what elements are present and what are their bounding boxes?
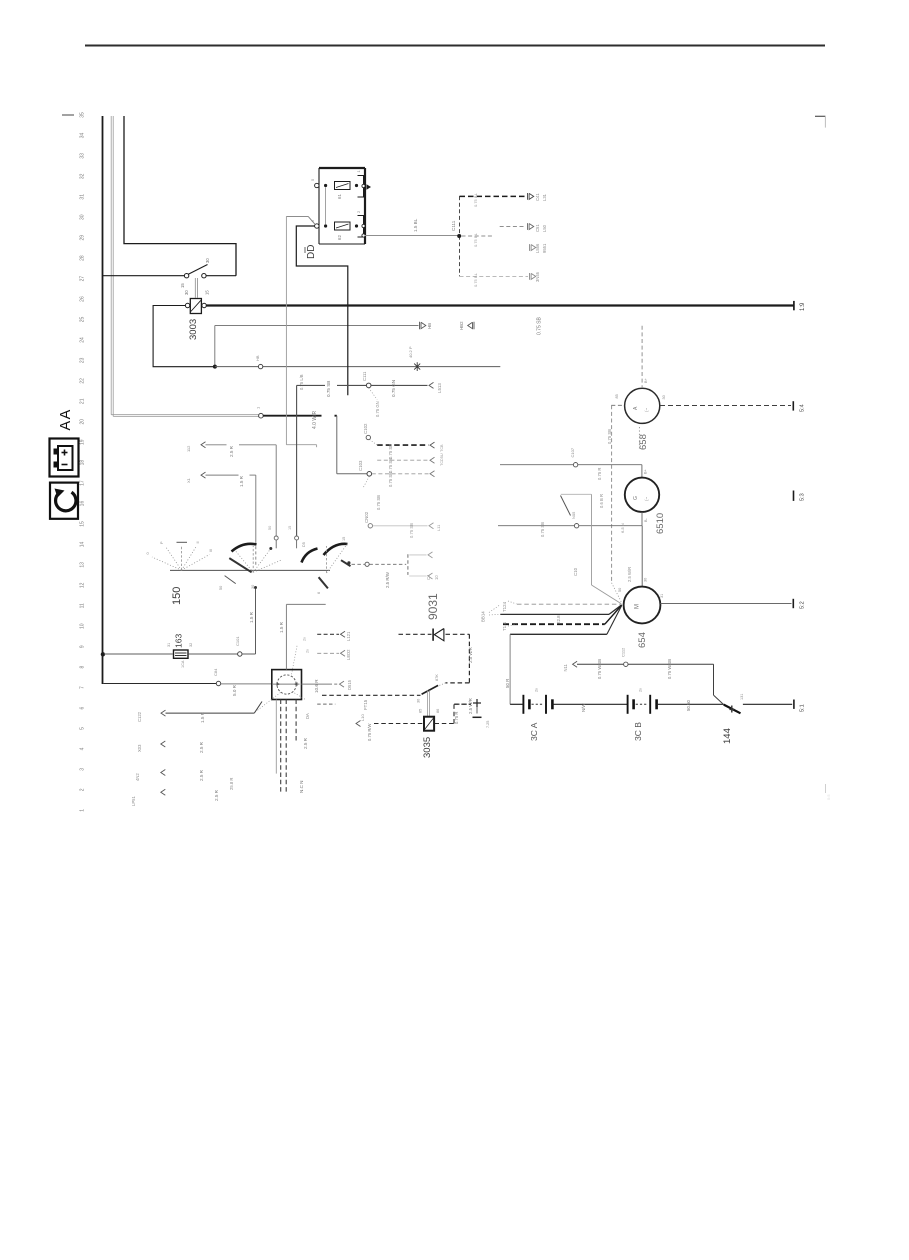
svg-text:1: 1 xyxy=(80,809,86,812)
component main switch 144 blade xyxy=(724,705,741,714)
node label 2x battB xyxy=(639,688,643,692)
node leader 3A downright xyxy=(292,692,310,720)
svg-text:0.75 SB: 0.75 SB xyxy=(376,495,381,510)
node label 2.5 R pigtail xyxy=(303,737,308,749)
component battery 3C A xyxy=(523,695,552,714)
node label 0.75 SB CN02 xyxy=(409,523,414,538)
wire switch to lineB xyxy=(206,275,236,277)
node label 2.5 W/R a xyxy=(468,647,473,663)
svg-text:0.75 R/W: 0.75 R/W xyxy=(367,723,372,741)
node label 30 654 xyxy=(644,578,648,582)
node labels 0.75 SB fan xyxy=(388,444,393,487)
svg-text:30: 30 xyxy=(184,290,189,295)
svg-text:0.75 BL: 0.75 BL xyxy=(473,192,478,207)
svg-text:31: 31 xyxy=(660,594,664,598)
svg-text:2x: 2x xyxy=(535,688,539,692)
node label 2.5 R/W ign xyxy=(385,571,390,588)
wire fuse62 loop xyxy=(296,226,348,395)
node 6510 inner symbol xyxy=(633,496,649,501)
svg-text:CN02: CN02 xyxy=(364,511,369,523)
wire ruler top dash xyxy=(62,114,74,116)
wire C122 wire xyxy=(161,702,262,717)
wire branch C41 bold dashed xyxy=(460,195,528,197)
wire switch feed y275 xyxy=(103,275,185,277)
component switch blade (relay 3003 control) xyxy=(188,265,207,275)
node circle on ign output xyxy=(365,562,369,566)
svg-text:8: 8 xyxy=(80,666,86,669)
svg-text:0.75 SB: 0.75 SB xyxy=(607,429,612,444)
node fuse62 dots xyxy=(324,224,358,227)
wire stub connector row475 xyxy=(186,472,206,483)
svg-text:L31: L31 xyxy=(542,193,547,201)
svg-text:C107: C107 xyxy=(570,447,575,457)
svg-text:0.75 R: 0.75 R xyxy=(597,468,602,480)
svg-text:2.5 W/R: 2.5 W/R xyxy=(627,567,632,582)
wire DD long gray vertical xyxy=(285,216,287,444)
svg-text:C103: C103 xyxy=(358,460,363,471)
node fuse61 terminal xyxy=(315,183,319,187)
wire 654 ground xyxy=(660,603,791,605)
svg-text:3: 3 xyxy=(80,768,86,771)
wire C111 row right xyxy=(371,384,427,386)
wire sense wire y664 xyxy=(573,661,624,667)
node connector half [> HB xyxy=(420,322,433,329)
svg-text:2.5 R: 2.5 R xyxy=(229,445,234,457)
node splice 40.2P xyxy=(408,346,420,371)
node label 144 xyxy=(722,728,733,744)
wire x611 long dashed xyxy=(611,405,613,583)
node battery positive tap xyxy=(473,699,491,728)
svg-text:TCD5U: TCD5U xyxy=(440,453,444,466)
node label BB14 xyxy=(481,605,501,622)
svg-text:30: 30 xyxy=(644,578,648,582)
svg-text:6-5 N: 6-5 N xyxy=(620,523,625,533)
wire branch bottom dashed xyxy=(460,275,529,277)
svg-text:0.75 SB: 0.75 SB xyxy=(388,472,393,487)
node label 10.6 R xyxy=(314,679,319,693)
wire DD long gray bottom stub xyxy=(286,445,316,448)
wire double conductor vertical xyxy=(111,116,113,416)
svg-text:24: 24 xyxy=(80,337,86,343)
svg-text:9031: 9031 xyxy=(426,593,440,620)
wire C101 to ignition xyxy=(242,589,256,654)
node junction C111 xyxy=(457,234,461,238)
wire 3035 coil left dashed xyxy=(374,723,423,725)
node circle C103 xyxy=(358,460,372,476)
node label C410 xyxy=(426,574,439,580)
svg-text:2.5 R: 2.5 R xyxy=(214,789,219,801)
svg-text:28: 28 xyxy=(80,255,86,261)
node circle CN02 xyxy=(364,511,372,528)
node label 6510 xyxy=(655,513,666,534)
svg-text:26: 26 xyxy=(80,296,86,302)
svg-text:C51: C51 xyxy=(535,224,540,232)
svg-text:(~: (~ xyxy=(644,407,649,412)
svg-text:85: 85 xyxy=(615,394,619,398)
node fuse 3003 pin labels xyxy=(184,290,210,295)
node connector L556 xyxy=(530,243,548,253)
node label AA xyxy=(58,408,74,430)
svg-text:163: 163 xyxy=(174,634,184,648)
svg-text:21: 21 xyxy=(80,398,86,404)
svg-text:9: 9 xyxy=(80,645,86,648)
node labels fan pins xyxy=(440,444,444,466)
svg-text:30: 30 xyxy=(417,699,421,703)
wire distribution line y366 xyxy=(215,366,500,368)
wire DD feed horizontal xyxy=(286,215,308,217)
svg-text:1.5 R: 1.5 R xyxy=(249,611,254,623)
wire ignition common line xyxy=(170,569,330,571)
node label 5.0 R xyxy=(232,684,237,696)
svg-text:C112: C112 xyxy=(621,647,626,657)
wire 654 fan dashed y604 xyxy=(517,603,621,605)
svg-text:3003: 3003 xyxy=(188,319,199,340)
svg-text:D5: D5 xyxy=(302,542,306,547)
svg-text:654: 654 xyxy=(637,632,648,648)
svg-text:4.0 W/R: 4.0 W/R xyxy=(312,411,318,429)
svg-text:0.75 SB: 0.75 SB xyxy=(388,444,393,459)
svg-text:DA: DA xyxy=(305,713,310,719)
node tick labels x276 xyxy=(268,526,272,530)
component fuse 61 xyxy=(335,182,351,200)
wire stub connector row444 xyxy=(186,442,206,452)
svg-text:0.75 SB: 0.75 SB xyxy=(540,522,545,537)
node connector half HB <] xyxy=(459,321,474,330)
svg-text:1.5 R: 1.5 R xyxy=(200,711,205,723)
node 658 pin labels xyxy=(615,377,666,399)
node battery icon symbol xyxy=(54,446,73,470)
wire vertical x276 to Y xyxy=(275,445,277,536)
svg-text:C111: C111 xyxy=(362,371,367,381)
node circle C102 xyxy=(363,423,370,440)
node label 0.75 L/B xyxy=(299,374,304,390)
node circle on y525 xyxy=(571,511,579,528)
svg-text:6: 6 xyxy=(317,592,321,594)
svg-text:50 R: 50 R xyxy=(505,679,510,688)
component blade y525 xyxy=(561,496,571,516)
node switch contact 30 xyxy=(202,274,206,278)
wire switch out to ground xyxy=(743,703,792,705)
svg-text:III: III xyxy=(209,549,213,552)
wire x591 diagonal xyxy=(592,585,622,604)
node label 50 R xyxy=(505,679,510,688)
node ground 5:1 xyxy=(794,700,806,713)
node label 150 xyxy=(171,587,183,605)
svg-text:HB: HB xyxy=(427,323,432,329)
node label 0.75 R coil right xyxy=(454,712,459,724)
wire sense wire right xyxy=(628,664,724,704)
svg-text:T1.4: T1.4 xyxy=(502,622,507,631)
svg-text:DD: DD xyxy=(306,245,317,259)
node C111 wire labels xyxy=(473,192,478,287)
svg-text:6: 6 xyxy=(80,706,86,709)
svg-text:5:3: 5:3 xyxy=(800,493,806,501)
svg-text:31: 31 xyxy=(167,643,171,647)
node switch pin label RUN xyxy=(180,258,210,288)
node Y connector x276 xyxy=(274,536,278,548)
svg-text:2: 2 xyxy=(80,788,86,791)
wire ignition branch tee xyxy=(407,554,409,575)
svg-text:15: 15 xyxy=(205,290,210,295)
node label 163 xyxy=(167,634,193,668)
component relay 3035 blade xyxy=(422,685,439,694)
svg-text:61: 61 xyxy=(337,194,342,199)
node label 3C B xyxy=(633,722,643,741)
wire accessory line y325 xyxy=(215,325,419,327)
wire vertical x255 upper xyxy=(255,475,257,541)
wire 658 ground dashed xyxy=(660,405,791,407)
svg-text:II: II xyxy=(196,541,200,543)
svg-text:13: 13 xyxy=(80,562,86,568)
svg-text:0.75 SB: 0.75 SB xyxy=(537,317,543,335)
wire row CN02 xyxy=(373,525,428,527)
node labels 2.5R stubs xyxy=(199,741,234,801)
wire DD feed diagonal xyxy=(308,216,315,224)
svg-text:1.5 R: 1.5 R xyxy=(279,621,284,633)
svg-text:L513: L513 xyxy=(437,383,442,393)
node fuse 3003 terminal left xyxy=(185,303,189,307)
svg-text:0.75 W/SB: 0.75 W/SB xyxy=(667,659,672,679)
node leader C111b xyxy=(369,388,380,417)
node label 4.0 W/R xyxy=(312,411,318,429)
node leader 3A downleft xyxy=(257,693,281,712)
svg-text:B+: B+ xyxy=(644,377,648,383)
component ignition fan A (key positions) xyxy=(146,541,213,570)
node label T1.4 xyxy=(502,622,517,631)
node corner registration mark xyxy=(815,116,825,127)
svg-text:29: 29 xyxy=(80,235,86,241)
node leader to 3035 blade xyxy=(439,683,446,686)
svg-text:32: 32 xyxy=(80,173,86,179)
svg-text:7.25: 7.25 xyxy=(486,721,490,728)
wire dashed row 474 xyxy=(372,473,429,475)
svg-text:C111: C111 xyxy=(451,220,456,231)
wire fuse163 feed xyxy=(104,653,173,655)
component connector bracket b1 xyxy=(358,176,372,198)
svg-text:(~: (~ xyxy=(644,496,649,501)
wire branch mid dashed xyxy=(462,227,527,237)
svg-text:87K: 87K xyxy=(435,674,439,681)
wire 6510 bottom run xyxy=(498,525,642,527)
svg-text:2x: 2x xyxy=(303,637,307,641)
node connector LP51 xyxy=(131,789,165,806)
node label 0.75 SB bus xyxy=(537,317,543,335)
svg-text:144: 144 xyxy=(722,728,733,744)
node label 22.8 xyxy=(556,615,561,624)
component fuse 3003 xyxy=(190,299,201,314)
node label 3035 xyxy=(422,737,433,758)
svg-text:15: 15 xyxy=(288,526,292,530)
node label 0.75 SB x611 xyxy=(607,429,612,444)
component ignition fan C (accessory contacts) xyxy=(302,537,351,594)
svg-text:30: 30 xyxy=(205,258,210,263)
node circle C101 xyxy=(235,636,242,657)
svg-text:C102: C102 xyxy=(363,423,368,434)
svg-text:1.5 R: 1.5 R xyxy=(239,475,244,487)
wire feed line B L-run xyxy=(124,116,236,276)
node connector tee down xyxy=(428,573,433,579)
svg-text:L10: L10 xyxy=(360,714,365,721)
node label N/W xyxy=(581,703,586,712)
svg-text:0.75 GN: 0.75 GN xyxy=(375,401,380,417)
node label DD xyxy=(305,245,317,259)
svg-text:32: 32 xyxy=(189,643,193,647)
svg-text:1.5 BL: 1.5 BL xyxy=(413,218,418,232)
wire 658 left dashed xyxy=(611,404,624,406)
wire vertical x255 dashed xyxy=(255,541,257,567)
svg-text:86: 86 xyxy=(436,709,440,713)
component battery 3C B xyxy=(628,695,657,714)
svg-text:3C A: 3C A xyxy=(529,722,539,741)
wire diode feed dashed xyxy=(399,633,432,635)
wire top border rule xyxy=(85,45,825,47)
node circle C111b xyxy=(362,371,371,388)
svg-text:G: G xyxy=(633,496,639,500)
node connector 3N46 xyxy=(530,271,541,282)
wire relay actuator link xyxy=(195,278,197,298)
wire 3035 coil right dashed xyxy=(435,704,472,723)
svg-text:BB14: BB14 xyxy=(481,611,486,622)
node ignition 30 terminal xyxy=(254,586,257,589)
node label N11 xyxy=(563,663,568,671)
node label 1.5 R x255 xyxy=(249,611,254,623)
svg-text:5:4: 5:4 xyxy=(800,404,806,412)
node connector row474 xyxy=(430,471,435,477)
wire fuse link vertical xyxy=(325,187,327,224)
wire tee stub down xyxy=(409,575,426,577)
node label 1.5 R row475 xyxy=(239,475,244,487)
node tick labels x296 xyxy=(288,526,292,530)
wire dashed row 460 xyxy=(377,459,428,461)
svg-text:31: 31 xyxy=(80,194,86,200)
node label FT15 xyxy=(363,699,368,710)
svg-text:23: 23 xyxy=(80,357,86,363)
svg-text:C10: C10 xyxy=(573,567,578,576)
svg-text:30: 30 xyxy=(80,214,86,220)
node bottom register mark xyxy=(826,784,832,800)
node label C111 xyxy=(451,220,456,231)
wire row444 xyxy=(206,444,277,446)
svg-text:50: 50 xyxy=(219,586,223,590)
wire C84 feed xyxy=(104,683,217,685)
node ground 5:2 xyxy=(793,599,805,609)
svg-text:15: 15 xyxy=(80,521,86,527)
wire 3035 actuator xyxy=(427,690,429,716)
node Y connector x296 xyxy=(295,536,299,548)
svg-text:0.75 SB: 0.75 SB xyxy=(409,523,414,538)
svg-text:19: 19 xyxy=(80,439,86,445)
node label C10 xyxy=(573,567,578,576)
wire trunk to C103 xyxy=(337,473,367,475)
svg-text:50: 50 xyxy=(618,588,622,592)
wire stub LED2 xyxy=(317,652,339,654)
node circle C112 xyxy=(621,647,629,667)
node label 1.5 BL xyxy=(413,218,418,232)
svg-text:N11: N11 xyxy=(563,663,568,671)
svg-text:11: 11 xyxy=(80,603,86,608)
node connector C41 xyxy=(528,193,548,201)
wire vertical x296 to Y xyxy=(296,385,298,535)
svg-text:4N2: 4N2 xyxy=(135,773,140,781)
svg-text:50.50: 50.50 xyxy=(686,699,691,711)
component fuse box DD frame xyxy=(319,168,365,244)
svg-text:L11: L11 xyxy=(436,524,441,531)
wire tap vertical x215 xyxy=(214,326,216,366)
wire tee stub up xyxy=(409,554,426,556)
svg-text:1:9: 1:9 xyxy=(800,302,806,311)
svg-text:112: 112 xyxy=(186,445,191,452)
svg-text:4: 4 xyxy=(80,747,86,750)
node ground 5:4 xyxy=(793,401,805,412)
wire battery feed bus vertical xyxy=(102,116,104,684)
svg-text:TCB: TCB xyxy=(440,444,444,452)
svg-text:17: 17 xyxy=(80,480,86,486)
wire 658 top dashed xyxy=(641,326,643,387)
svg-text:15: 15 xyxy=(342,537,346,541)
svg-text:2.5 R: 2.5 R xyxy=(199,769,204,781)
node connector row460 xyxy=(430,457,435,463)
svg-text:3N46: 3N46 xyxy=(535,271,540,282)
node leader C103 down xyxy=(363,476,381,510)
wire battery feed from y634 xyxy=(509,634,511,704)
svg-text:2x: 2x xyxy=(306,649,310,653)
node connector L10 xyxy=(356,714,365,727)
node junction ignition output xyxy=(347,561,350,564)
component 3A lamp circle xyxy=(277,675,296,694)
node rotate icon arrow xyxy=(55,489,76,511)
node leader x611 to 654 xyxy=(612,583,622,602)
component ignition fan B (feed contacts) xyxy=(219,544,282,590)
node ground 5:3 xyxy=(794,491,806,502)
wire connector C111 spine xyxy=(459,196,461,276)
node label 2x battA xyxy=(535,688,539,692)
component alternator 658 circle xyxy=(625,388,660,423)
wire C111 row y385 xyxy=(297,384,367,386)
svg-text:X03: X03 xyxy=(137,744,142,752)
wire stub L121 xyxy=(317,633,339,635)
svg-text:10: 10 xyxy=(80,623,86,629)
node label N.C N pigtail xyxy=(299,780,304,793)
node label 3003 xyxy=(188,319,199,340)
wire C84 to 3A xyxy=(221,683,272,685)
svg-text:7: 7 xyxy=(80,686,86,689)
node leader C102 xyxy=(370,440,378,446)
svg-text:40.2 P: 40.2 P xyxy=(408,346,413,358)
svg-text:N.C N: N.C N xyxy=(299,780,304,793)
node connector row445 xyxy=(430,442,435,448)
wire 1.5R vertical into 3A xyxy=(285,604,287,669)
wire 654 fan bold dashed y624 xyxy=(503,605,622,624)
svg-text:150: 150 xyxy=(171,587,183,605)
svg-text:30: 30 xyxy=(662,395,666,399)
svg-text:C84: C84 xyxy=(213,668,218,676)
node connector L11 xyxy=(429,523,441,531)
node battery icon frame xyxy=(50,439,79,477)
svg-text:D515: D515 xyxy=(347,679,352,690)
wire 6510 top stub xyxy=(642,465,648,478)
wire diode route down xyxy=(468,634,470,683)
node junction battery bus to fuse163 xyxy=(101,652,105,656)
node label 1.5 R C122 xyxy=(200,711,205,723)
node junction y366 xyxy=(213,365,217,369)
svg-text:0.75 GN: 0.75 GN xyxy=(391,380,396,397)
wire 1.5 BL from DD xyxy=(365,235,459,237)
svg-text:2.5 R/W: 2.5 R/W xyxy=(385,571,390,588)
svg-text:131: 131 xyxy=(740,694,744,700)
svg-text:25.8 R: 25.8 R xyxy=(229,778,234,790)
node connector LED2 xyxy=(341,649,352,660)
svg-text:N05: N05 xyxy=(571,511,576,519)
